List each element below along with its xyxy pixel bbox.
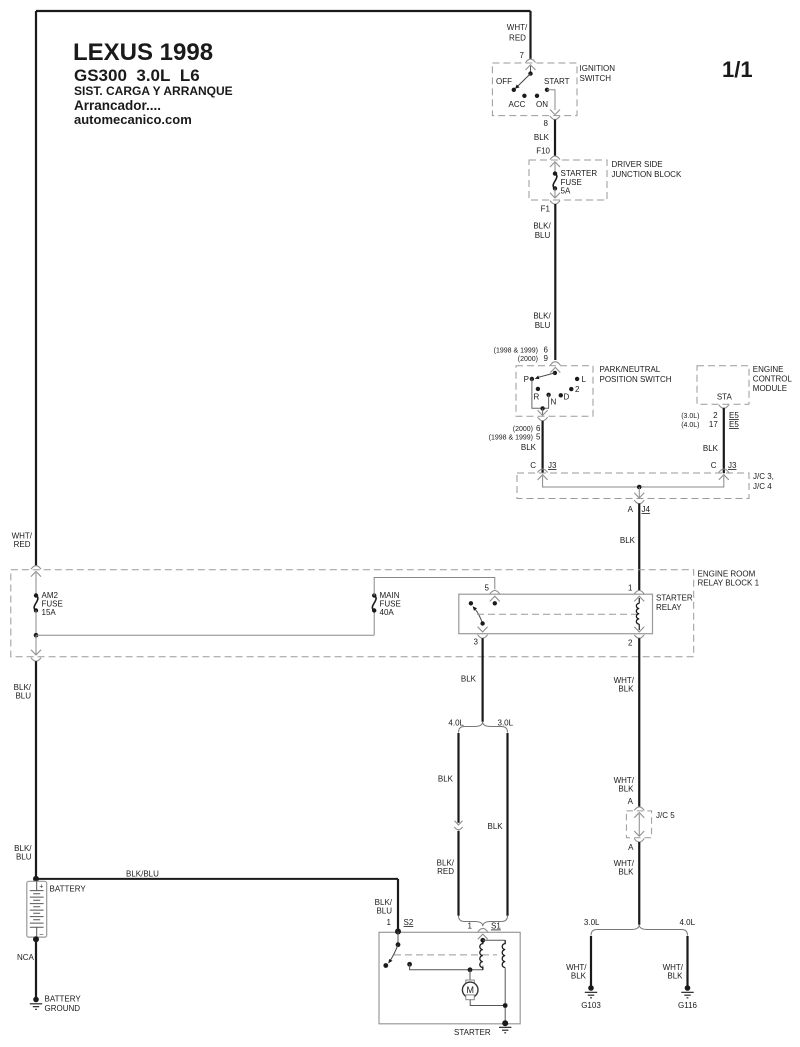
svg-text:ENGINE ROOM: ENGINE ROOM <box>698 570 756 579</box>
starter fuse 5A <box>553 171 557 175</box>
svg-text:F1: F1 <box>541 205 551 214</box>
svg-text:BLK: BLK <box>618 785 634 794</box>
svg-text:BLU: BLU <box>535 321 551 330</box>
svg-text:A: A <box>628 843 634 852</box>
wire WHT/BLK relay pin 2 down <box>638 638 640 806</box>
svg-text:5: 5 <box>485 584 490 593</box>
svg-text:S1: S1 <box>491 922 501 931</box>
connector chevron AM2 entry <box>31 571 41 576</box>
svg-text:R: R <box>534 393 540 402</box>
svg-text:BLU: BLU <box>535 231 551 240</box>
svg-text:BLK: BLK <box>618 685 634 694</box>
relay moving contact dot <box>480 621 484 625</box>
wire WHT/RED down to ignition switch pin 7 <box>529 11 531 59</box>
battery junction dot <box>33 876 39 882</box>
wire S1 to hold-in coil <box>483 939 505 941</box>
connector chevron AM2 exit <box>31 650 41 655</box>
svg-text:BLK: BLK <box>488 822 504 831</box>
svg-text:JUNCTION BLOCK: JUNCTION BLOCK <box>612 170 682 179</box>
svg-text:15A: 15A <box>42 608 57 617</box>
svg-text:–: – <box>40 931 44 938</box>
connector cup AM2 exit <box>31 658 41 662</box>
wire to motor <box>469 970 471 981</box>
svg-text:L: L <box>582 375 587 384</box>
wire START contact to pin 8 <box>547 90 555 110</box>
internal wire to J4 <box>638 487 640 498</box>
svg-text:BLK: BLK <box>461 675 477 684</box>
svg-text:G116: G116 <box>678 1001 698 1010</box>
svg-text:START: START <box>544 77 570 86</box>
svg-text:POSITION SWITCH: POSITION SWITCH <box>600 375 672 384</box>
ignition pivot dot <box>528 71 532 75</box>
svg-text:ACC: ACC <box>509 100 526 109</box>
relay coil wire top <box>638 598 640 603</box>
connector cup pin 1 <box>634 591 644 595</box>
svg-text:BLK: BLK <box>667 972 683 981</box>
svg-text:A: A <box>628 797 634 806</box>
svg-text:RELAY BLOCK 1: RELAY BLOCK 1 <box>698 579 760 588</box>
connector chevron S1 entry <box>478 934 488 939</box>
svg-text:BLK: BLK <box>571 972 587 981</box>
svg-text:9: 9 <box>544 354 549 363</box>
connector cup J4 <box>634 500 644 504</box>
svg-text:1: 1 <box>468 922 473 931</box>
svg-text:(3.0L): (3.0L) <box>681 413 699 420</box>
connector chevron pin 3 <box>478 627 488 632</box>
svg-text:P: P <box>524 375 529 384</box>
svg-text:N: N <box>551 398 557 407</box>
svg-text:C: C <box>530 461 536 470</box>
contact dot N <box>546 393 550 397</box>
relay coil wire bottom <box>638 624 640 630</box>
wire motor to ground bus <box>470 1000 505 1006</box>
wire BLK/BLU relay block to battery <box>35 661 37 879</box>
svg-text:ENGINE: ENGINE <box>753 365 784 374</box>
driver side junction block box <box>529 160 607 200</box>
internal wire J/C5 <box>638 814 640 836</box>
svg-text:PARK/NEUTRAL: PARK/NEUTRAL <box>600 365 661 374</box>
junction connector box J/C 3, J/C 4 <box>517 473 749 499</box>
connector chevron J3 right entry <box>719 475 729 480</box>
svg-text:ON: ON <box>536 100 548 109</box>
merge brace into S1 <box>459 916 508 927</box>
svg-text:4.0L: 4.0L <box>448 718 464 727</box>
svg-text:RED: RED <box>437 867 454 876</box>
junction dot motor tap <box>468 967 473 972</box>
svg-text:IGNITION: IGNITION <box>580 64 616 73</box>
fuse AM2 15A <box>34 593 38 597</box>
connector chevron pin 1 <box>634 596 644 601</box>
svg-text:+: + <box>39 884 43 891</box>
motor M terminal bottom <box>466 995 475 1000</box>
wire S2 to switch pivot <box>397 932 399 945</box>
svg-text:(1998 & 1999): (1998 & 1999) <box>489 435 533 442</box>
ignition switch arm toward OFF <box>517 74 531 87</box>
connector chevron J/C5 top <box>634 813 644 818</box>
connector cup pin 7 <box>526 59 536 63</box>
connector chevron P/N top <box>550 367 560 372</box>
svg-text:(2000): (2000) <box>513 426 533 433</box>
split brace 3.0L / 4.0L grounds <box>591 925 688 936</box>
svg-text:(4.0L): (4.0L) <box>681 422 699 429</box>
svg-text:A: A <box>628 505 634 514</box>
wire junction to exit <box>542 408 544 415</box>
wire BLK P/N to J/C <box>541 421 543 473</box>
svg-text:2: 2 <box>713 411 718 420</box>
svg-text:(1998 & 1999): (1998 & 1999) <box>494 348 538 355</box>
svg-text:CONTROL: CONTROL <box>753 375 793 384</box>
wire WHT/BLK J/C5 down <box>638 842 640 925</box>
wire 3.0L branch BLK <box>506 733 508 916</box>
svg-text:Arrancador....: Arrancador.... <box>74 98 161 113</box>
svg-text:MODULE: MODULE <box>753 384 787 393</box>
wire hold-in coil to ground <box>504 968 506 1023</box>
wire 4.0L branch lower BLK/RED <box>457 831 459 916</box>
wire BLK/BLU into S2 <box>397 879 399 931</box>
connector cup pin 2 <box>634 635 644 639</box>
svg-text:2: 2 <box>628 639 633 648</box>
connector chevron pin 8 <box>550 110 560 115</box>
contact dot 2 <box>569 387 573 391</box>
starter switch arm <box>390 945 398 961</box>
wire BLK/BLU junction block to park/neutral switch <box>554 204 556 360</box>
motor M <box>462 982 478 998</box>
svg-text:BLK/: BLK/ <box>533 222 551 231</box>
svg-text:LEXUS 1998: LEXUS 1998 <box>73 39 213 66</box>
wire WHT/BLK to G116 <box>686 936 688 986</box>
svg-text:BLK: BLK <box>618 868 634 877</box>
wire AM2 junction down to exit <box>35 635 37 655</box>
ground G116 <box>685 985 691 991</box>
svg-text:automecanico.com: automecanico.com <box>74 112 192 127</box>
svg-text:D: D <box>564 393 570 402</box>
inline connector on 4.0L branch <box>455 821 463 825</box>
relay switch arm <box>475 609 483 624</box>
svg-text:BLU: BLU <box>16 853 32 862</box>
connector cup J3 left entry <box>538 469 548 473</box>
connector cup F10 <box>550 156 560 160</box>
connector cup pin 3 <box>478 635 488 639</box>
svg-text:BLK/BLU: BLK/BLU <box>126 870 159 879</box>
relay fixed contact dot <box>469 601 473 605</box>
connector chevron F1 <box>550 193 560 198</box>
connector cup pin 5 <box>490 591 500 595</box>
wire MAIN fuse to relay pin 5 <box>374 578 495 596</box>
connector cup J3 right entry <box>719 469 729 473</box>
svg-text:3.0L: 3.0L <box>498 718 514 727</box>
connector cup J/C5 top <box>634 807 644 811</box>
connector chevron F10 inside <box>550 162 560 167</box>
svg-text:4.0L: 4.0L <box>680 918 696 927</box>
svg-text:M: M <box>466 985 474 995</box>
junction dot <box>637 485 642 490</box>
contact dot ON <box>535 94 539 98</box>
svg-text:5: 5 <box>536 433 541 442</box>
wire AM2 fuse to junction <box>35 611 37 636</box>
starter relay box <box>459 594 653 634</box>
svg-text:J/C 4: J/C 4 <box>753 482 772 491</box>
starter switch pivot dot <box>396 942 401 947</box>
wire P contact to bottom junction <box>532 379 549 408</box>
starter box <box>379 932 520 1024</box>
S1 junction dot <box>480 938 485 943</box>
contact dot START <box>545 88 549 92</box>
svg-text:BATTERY: BATTERY <box>50 885 87 894</box>
contact dot OFF <box>512 88 516 92</box>
svg-text:E5: E5 <box>729 420 739 429</box>
svg-text:BLK: BLK <box>521 443 537 452</box>
svg-text:STA: STA <box>717 393 733 402</box>
battery negative terminal dot <box>33 936 39 942</box>
contact dot R <box>536 387 540 391</box>
ground G103 <box>588 985 594 991</box>
wire to starter fuse <box>554 163 556 174</box>
battery box <box>27 881 47 937</box>
starter mechanical dashed link <box>394 954 497 956</box>
wire BLK J4 to starter relay pin 1 <box>638 504 640 591</box>
P/N pivot dot <box>553 371 557 375</box>
svg-text:RED: RED <box>14 540 31 549</box>
wire MAIN fuse riser <box>373 611 375 636</box>
svg-text:J/C 3,: J/C 3, <box>753 472 774 481</box>
svg-text:GROUND: GROUND <box>45 1004 81 1013</box>
contact dot P <box>530 377 534 381</box>
junction connector box J/C 5 <box>626 811 651 838</box>
svg-text:1: 1 <box>387 918 392 927</box>
connector cup P/N bottom <box>538 417 548 421</box>
wire NCA battery to ground <box>35 939 37 999</box>
svg-text:GS300 3.0L L6: GS300 3.0L L6 <box>74 66 200 85</box>
wire BLK STA to J/C <box>723 408 725 473</box>
starter switch open contact dot <box>383 963 388 968</box>
svg-text:OFF: OFF <box>496 77 512 86</box>
ground junction dot <box>503 1003 508 1008</box>
connector cup J/C5 bottom <box>634 839 644 843</box>
svg-text:BLK: BLK <box>534 133 550 142</box>
connector cup AM2 entry <box>31 566 41 570</box>
relay pin 5 contact dot <box>493 601 497 605</box>
svg-text:BLU: BLU <box>15 692 31 701</box>
connector cup STA <box>719 405 729 409</box>
engine control module box <box>697 366 749 405</box>
connector chevron J3 left entry <box>538 475 548 480</box>
svg-text:J3: J3 <box>548 461 557 470</box>
starter ground symbol <box>499 1027 511 1033</box>
ignition switch box <box>492 63 577 116</box>
svg-text:BLK: BLK <box>438 775 454 784</box>
svg-text:8: 8 <box>544 119 549 128</box>
svg-text:BLK: BLK <box>703 444 719 453</box>
internal link wire <box>543 476 724 487</box>
relay coil <box>636 603 639 624</box>
junction dot AM2 <box>34 633 39 638</box>
battery ground symbol <box>33 997 39 1003</box>
wire junction to MAIN fuse <box>36 634 374 636</box>
connector chevron J4 exit <box>634 493 644 498</box>
svg-text:DRIVER SIDE: DRIVER SIDE <box>612 160 663 169</box>
svg-text:5A: 5A <box>561 187 571 196</box>
svg-text:3: 3 <box>474 638 479 647</box>
split brace 4.0L / 3.0L <box>459 722 508 733</box>
svg-text:7: 7 <box>520 51 525 60</box>
svg-text:J3: J3 <box>728 461 737 470</box>
svg-text:F10: F10 <box>536 147 550 156</box>
starter switch feed contact dot <box>407 962 412 967</box>
hold-in coil <box>502 940 505 967</box>
wire pin7 to pivot <box>530 66 532 74</box>
contact dot D <box>559 393 563 397</box>
P/N bottom junction dot <box>540 406 544 410</box>
wire BLK ignition to junction block <box>554 120 556 157</box>
svg-text:RELAY: RELAY <box>656 603 682 612</box>
svg-text:2: 2 <box>575 385 580 394</box>
engine room relay block 1 box <box>11 570 694 657</box>
connector chevron pin 5 <box>490 596 500 601</box>
connector chevron pin 7 <box>526 65 536 70</box>
svg-text:J/C 5: J/C 5 <box>656 811 675 820</box>
wire to AM2 fuse <box>35 573 37 596</box>
svg-text:RED: RED <box>509 34 526 43</box>
fuse MAIN 40A <box>372 608 376 612</box>
svg-text:C: C <box>711 461 717 470</box>
connector cup P/N top <box>550 362 560 366</box>
P/N switch arm toward P <box>537 373 555 378</box>
svg-text:WHT/: WHT/ <box>507 23 528 32</box>
wire BLK/BLU battery to starter S2 <box>36 878 398 880</box>
wire contact to motor branch <box>410 964 483 970</box>
wire WHT/RED top horizontal <box>36 10 531 12</box>
svg-text:G103: G103 <box>581 1001 601 1010</box>
wire WHT/RED left vertical <box>35 11 37 566</box>
wire 4.0L branch upper <box>457 733 459 823</box>
svg-text:E5: E5 <box>729 411 739 420</box>
connector chevron pin 2 <box>634 627 644 632</box>
svg-text:NCA: NCA <box>17 953 35 962</box>
svg-text:1: 1 <box>628 584 633 593</box>
pull-in coil <box>480 940 483 970</box>
contact dot L <box>575 377 579 381</box>
wire WHT/BLK to G103 <box>590 936 592 986</box>
svg-text:3.0L: 3.0L <box>584 918 600 927</box>
svg-text:17: 17 <box>709 420 718 429</box>
contact dot ACC <box>522 94 526 98</box>
wire BLK relay pin 3 down <box>482 638 484 722</box>
svg-text:STARTER: STARTER <box>656 594 693 603</box>
S2 terminal dot <box>395 929 401 935</box>
svg-text:BATTERY: BATTERY <box>45 995 82 1004</box>
svg-text:SIST. CARGA Y ARRANQUE: SIST. CARGA Y ARRANQUE <box>74 84 233 98</box>
battery internals <box>36 881 38 890</box>
svg-text:SWITCH: SWITCH <box>580 74 612 83</box>
svg-text:J4: J4 <box>642 505 651 514</box>
connector chevron P/N bottom <box>538 410 548 415</box>
connector cup pin 8 <box>550 116 560 120</box>
svg-text:S2: S2 <box>404 918 414 927</box>
svg-text:BLU: BLU <box>376 907 392 916</box>
svg-text:1/1: 1/1 <box>722 57 753 82</box>
park/neutral position switch box <box>516 366 593 417</box>
svg-text:BLK/: BLK/ <box>533 312 551 321</box>
svg-text:(2000): (2000) <box>518 356 538 363</box>
svg-text:40A: 40A <box>380 608 395 617</box>
relay mechanical link dashed <box>477 613 637 615</box>
svg-text:STARTER: STARTER <box>561 169 598 178</box>
starter ground terminal dot <box>502 1020 508 1026</box>
connector cup S1 entry <box>478 928 488 932</box>
wire fuse to F1 <box>554 188 556 198</box>
svg-text:BLK: BLK <box>620 536 636 545</box>
svg-text:STARTER: STARTER <box>454 1028 491 1037</box>
motor M terminal top <box>466 980 475 985</box>
connector cup F1 <box>550 201 560 205</box>
connector chevron J/C5 bottom <box>634 831 644 836</box>
